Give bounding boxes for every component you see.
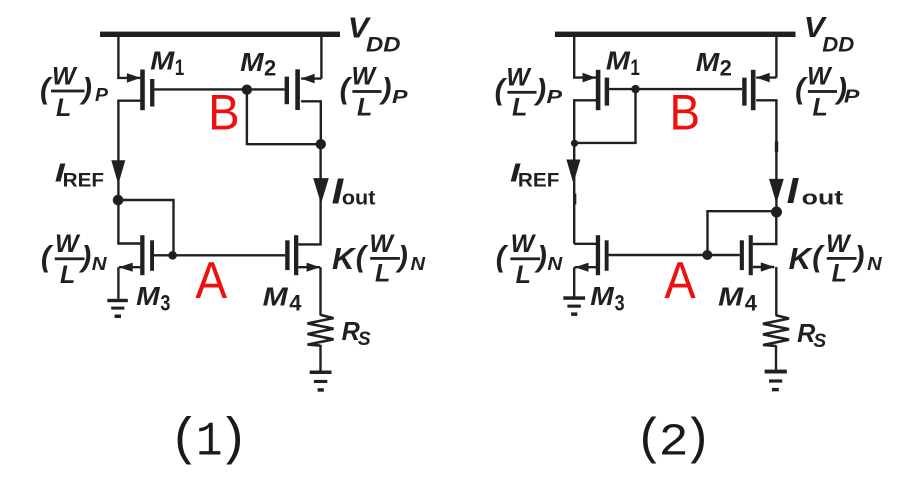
VDD rail circuit 1: [100, 32, 340, 37]
label M2 circuit 2: [696, 47, 732, 81]
wire M4 drain to Iout node circuit 2: [753, 212, 777, 244]
svg-text:M: M: [136, 281, 161, 311]
label M4: [263, 281, 303, 315]
svg-text:1: 1: [630, 55, 640, 80]
current arrow IREF circuit 1: [111, 160, 125, 184]
transistor M1 circuit 2 (PMOS): [583, 70, 610, 110]
svg-text:B: B: [670, 83, 701, 140]
svg-text:W: W: [369, 230, 395, 258]
svg-text:out: out: [802, 186, 844, 209]
svg-text:P: P: [547, 86, 563, 107]
ground M3 circuit 1: [107, 299, 128, 318]
label RS circuit 1: [342, 318, 371, 350]
svg-text:3: 3: [160, 291, 170, 316]
wire M2 drain down: [301, 101, 321, 144]
svg-text:DD: DD: [366, 34, 401, 57]
svg-text:P: P: [844, 86, 860, 107]
svg-text:L: L: [512, 94, 527, 122]
wire M2 source to rail: [320, 34, 322, 79]
svg-text:out: out: [342, 186, 376, 209]
resistor RS circuit 1: [308, 315, 334, 346]
svg-text:B: B: [208, 83, 240, 140]
node dot Iout circuit 2: [771, 207, 782, 218]
svg-text:S: S: [358, 329, 371, 350]
label M1: [150, 46, 184, 81]
wire gate bus M1-M2 circuit 2: [609, 88, 742, 90]
VDD rail circuit 2: [555, 32, 796, 37]
label IREF circuit 1: [55, 157, 104, 191]
wire M3 source to ground: [117, 267, 119, 299]
wire M4 drain to node dot: [298, 144, 320, 244]
svg-text:M: M: [606, 46, 631, 76]
label M1 circuit 2: [606, 46, 640, 81]
wire M1 drain down: [118, 101, 140, 200]
svg-text:3: 3: [615, 291, 625, 316]
artifact dash on IREF wire circuit 2: [573, 194, 576, 205]
wire resistor to ground circuit 2: [775, 345, 777, 369]
transistor M2 (PMOS): [285, 69, 322, 110]
label K(W/L)N circuit 2: [789, 230, 883, 288]
svg-text:W: W: [352, 63, 378, 91]
node B dot circuit 1: [242, 85, 252, 95]
current arrow Iout circuit 2: [769, 179, 784, 203]
svg-text:1: 1: [175, 55, 185, 80]
svg-text:I: I: [787, 170, 800, 211]
transistor M4 circuit 2 (NMOS): [740, 235, 775, 275]
node dot M1 drain junction circuit 2: [571, 140, 578, 147]
transistor M3 (NMOS): [119, 235, 154, 275]
svg-text:N: N: [411, 253, 426, 274]
svg-text:L: L: [56, 94, 71, 122]
ground M3 circuit 2: [563, 296, 585, 316]
wire M1 diode connection circuit 2: [574, 89, 635, 143]
svg-text:W: W: [506, 64, 532, 92]
label (W/L)P right circuit 1: [340, 63, 409, 122]
resistor RS circuit 2: [763, 315, 789, 346]
svg-text:DD: DD: [822, 34, 854, 57]
svg-text:4: 4: [289, 291, 302, 316]
svg-text:M: M: [696, 47, 721, 77]
label (W/L)N left circuit 2: [496, 230, 563, 289]
label Iout circuit 1: [332, 171, 376, 212]
node dot M2 drain junction: [316, 139, 326, 149]
svg-text:W: W: [52, 63, 78, 91]
svg-text:W: W: [55, 230, 81, 258]
label K(W/L)N circuit 1: [332, 230, 426, 288]
label (W/L)N left circuit 1: [41, 230, 107, 289]
wire Iout node to gate bus circuit 2: [708, 211, 777, 255]
wire M4 source to resistor: [319, 267, 321, 315]
svg-text:M: M: [150, 46, 175, 76]
node B dot circuit 2: [631, 85, 639, 93]
wire gate bus M1-M2 (node B): [154, 88, 284, 90]
svg-text:M: M: [240, 47, 265, 77]
node A dot circuit 1: [168, 251, 177, 260]
svg-text:L: L: [832, 260, 847, 288]
wire M1 drain down circuit 2: [574, 100, 596, 244]
current arrow Iout circuit 1: [313, 178, 329, 204]
artifact dash on M2 drain wire circuit 2: [775, 141, 778, 152]
wire M2 drain down circuit 2: [756, 100, 776, 212]
caption (1): [169, 412, 249, 470]
label VDD circuit 2: [804, 12, 855, 56]
label RS circuit 2: [797, 320, 826, 352]
label IREF circuit 2: [510, 157, 559, 191]
svg-text:A: A: [195, 251, 227, 309]
wire resistor to ground circuit 1: [319, 345, 321, 371]
node dot IREF circuit 1: [113, 195, 124, 206]
svg-text:W: W: [807, 63, 833, 91]
svg-text:W: W: [511, 230, 537, 258]
svg-text:L: L: [813, 94, 828, 122]
svg-text:N: N: [92, 253, 107, 274]
svg-text:M: M: [590, 281, 615, 311]
svg-text:K: K: [789, 241, 814, 276]
wire gate bus A circuit 2: [609, 254, 740, 256]
svg-text:P: P: [95, 84, 109, 105]
transistor M3 circuit 2 (NMOS): [575, 235, 609, 275]
wire M4 source to resistor circuit 2: [775, 267, 777, 316]
svg-text:M: M: [263, 281, 290, 311]
svg-text:N: N: [547, 253, 562, 274]
svg-text:A: A: [664, 251, 696, 309]
svg-text:): ): [218, 412, 249, 470]
svg-text:W: W: [826, 230, 852, 258]
wire gate bus A M3-M4: [154, 254, 285, 256]
svg-text:REF: REF: [63, 169, 105, 191]
wire node B to M2 drain: [247, 90, 321, 145]
svg-text:2: 2: [720, 56, 732, 81]
label M3 circuit 2: [590, 281, 624, 316]
wire M3 drain circuit 2: [574, 243, 596, 245]
label M4 circuit 2: [718, 281, 758, 315]
svg-text:M: M: [718, 281, 745, 311]
transistor M2 circuit 2 (PMOS): [742, 70, 776, 110]
transistor M4 (NMOS): [285, 235, 320, 275]
wire M3 drain: [118, 200, 140, 244]
wire M1 source to rail circuit 2: [574, 34, 596, 78]
svg-text:L: L: [516, 261, 531, 289]
node A dot circuit 2: [702, 250, 712, 260]
ground RS circuit 2: [765, 370, 787, 392]
caption (2): [635, 412, 713, 468]
svg-text:): ): [683, 412, 713, 468]
current arrow IREF circuit 2: [566, 160, 580, 184]
label VDD circuit 1: [348, 13, 401, 57]
label Iout circuit 2: [787, 170, 844, 211]
wire M1 source to rail: [118, 34, 140, 78]
svg-text:REF: REF: [518, 169, 560, 191]
label M2: [240, 47, 276, 81]
transistor M1 (PMOS): [127, 70, 155, 111]
label (W/L)P left circuit 2: [495, 64, 563, 122]
wire M3 diode connection: [118, 200, 173, 255]
svg-text:L: L: [375, 260, 390, 288]
svg-text:L: L: [60, 261, 75, 289]
ground RS circuit 1: [310, 371, 332, 392]
svg-text:K: K: [332, 241, 357, 276]
svg-text:S: S: [813, 331, 826, 352]
label (W/L)P right circuit 2: [795, 63, 860, 122]
svg-text:4: 4: [745, 291, 758, 316]
label M3: [136, 281, 170, 316]
svg-text:2: 2: [264, 56, 276, 81]
label (W/L)P left circuit 1: [40, 63, 109, 123]
svg-text:P: P: [392, 86, 408, 107]
svg-text:L: L: [357, 94, 372, 122]
wire M2 source to rail circuit 2: [775, 34, 777, 78]
wire M3 source to ground circuit 2: [573, 267, 575, 296]
svg-text:N: N: [867, 253, 882, 274]
